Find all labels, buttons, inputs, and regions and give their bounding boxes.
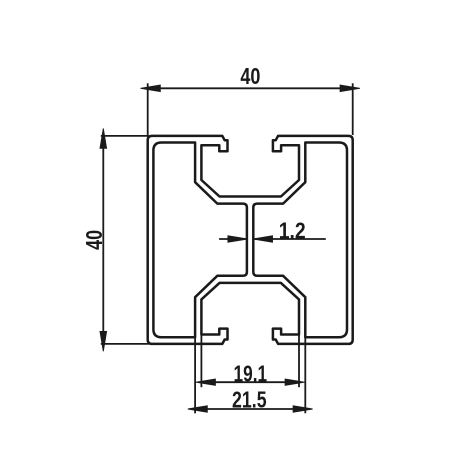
- arrowhead up (left 40): [100, 129, 107, 149]
- extension line right (19.1 dim): [298, 334, 300, 387]
- svg-text:21.5: 21.5: [232, 386, 267, 412]
- arrowhead right (21.5): [293, 406, 313, 412]
- dimension line 19.1: [201, 381, 299, 383]
- arrowhead right-pointing (1.2 dim, left side): [228, 236, 248, 242]
- extension line right (top-40 dim): [352, 83, 354, 135]
- profile outer contour (40x40 rail with top/bottom slots and hooks): [148, 136, 353, 344]
- left hollow chamber (inner contour): [153, 143, 247, 338]
- arrowhead down (left 40): [100, 332, 107, 352]
- svg-text:40: 40: [81, 230, 107, 250]
- arrowhead right (top 40): [340, 85, 360, 92]
- dimension line 21.5: [195, 408, 305, 410]
- extension line bottom (left-40 dim): [101, 343, 149, 345]
- leader line left (1.2 web dim): [219, 238, 247, 240]
- arrowhead left-pointing (1.2 dim, right side): [253, 236, 273, 242]
- arrowhead left (21.5): [188, 406, 208, 412]
- leader line right (1.2 web dim): [253, 238, 326, 240]
- svg-text:19.1: 19.1: [234, 360, 268, 386]
- extension line left (21.5 dim): [194, 330, 196, 413]
- arrowhead right (19.1): [285, 379, 304, 385]
- svg-text:1.2: 1.2: [279, 217, 306, 243]
- right hollow chamber (inner contour): [253, 143, 347, 338]
- arrowhead left (19.1): [196, 379, 216, 385]
- extension line left (19.1 dim): [200, 334, 202, 387]
- extension line top (left-40 dim): [101, 135, 149, 137]
- extension line left (top-40 dim): [147, 83, 149, 135]
- svg-text:40: 40: [240, 63, 260, 89]
- dimension line left 40: [102, 136, 104, 344]
- dimension line top 40: [148, 87, 353, 89]
- arrowhead left (top 40): [141, 85, 161, 92]
- extension line right (21.5 dim): [304, 330, 306, 413]
